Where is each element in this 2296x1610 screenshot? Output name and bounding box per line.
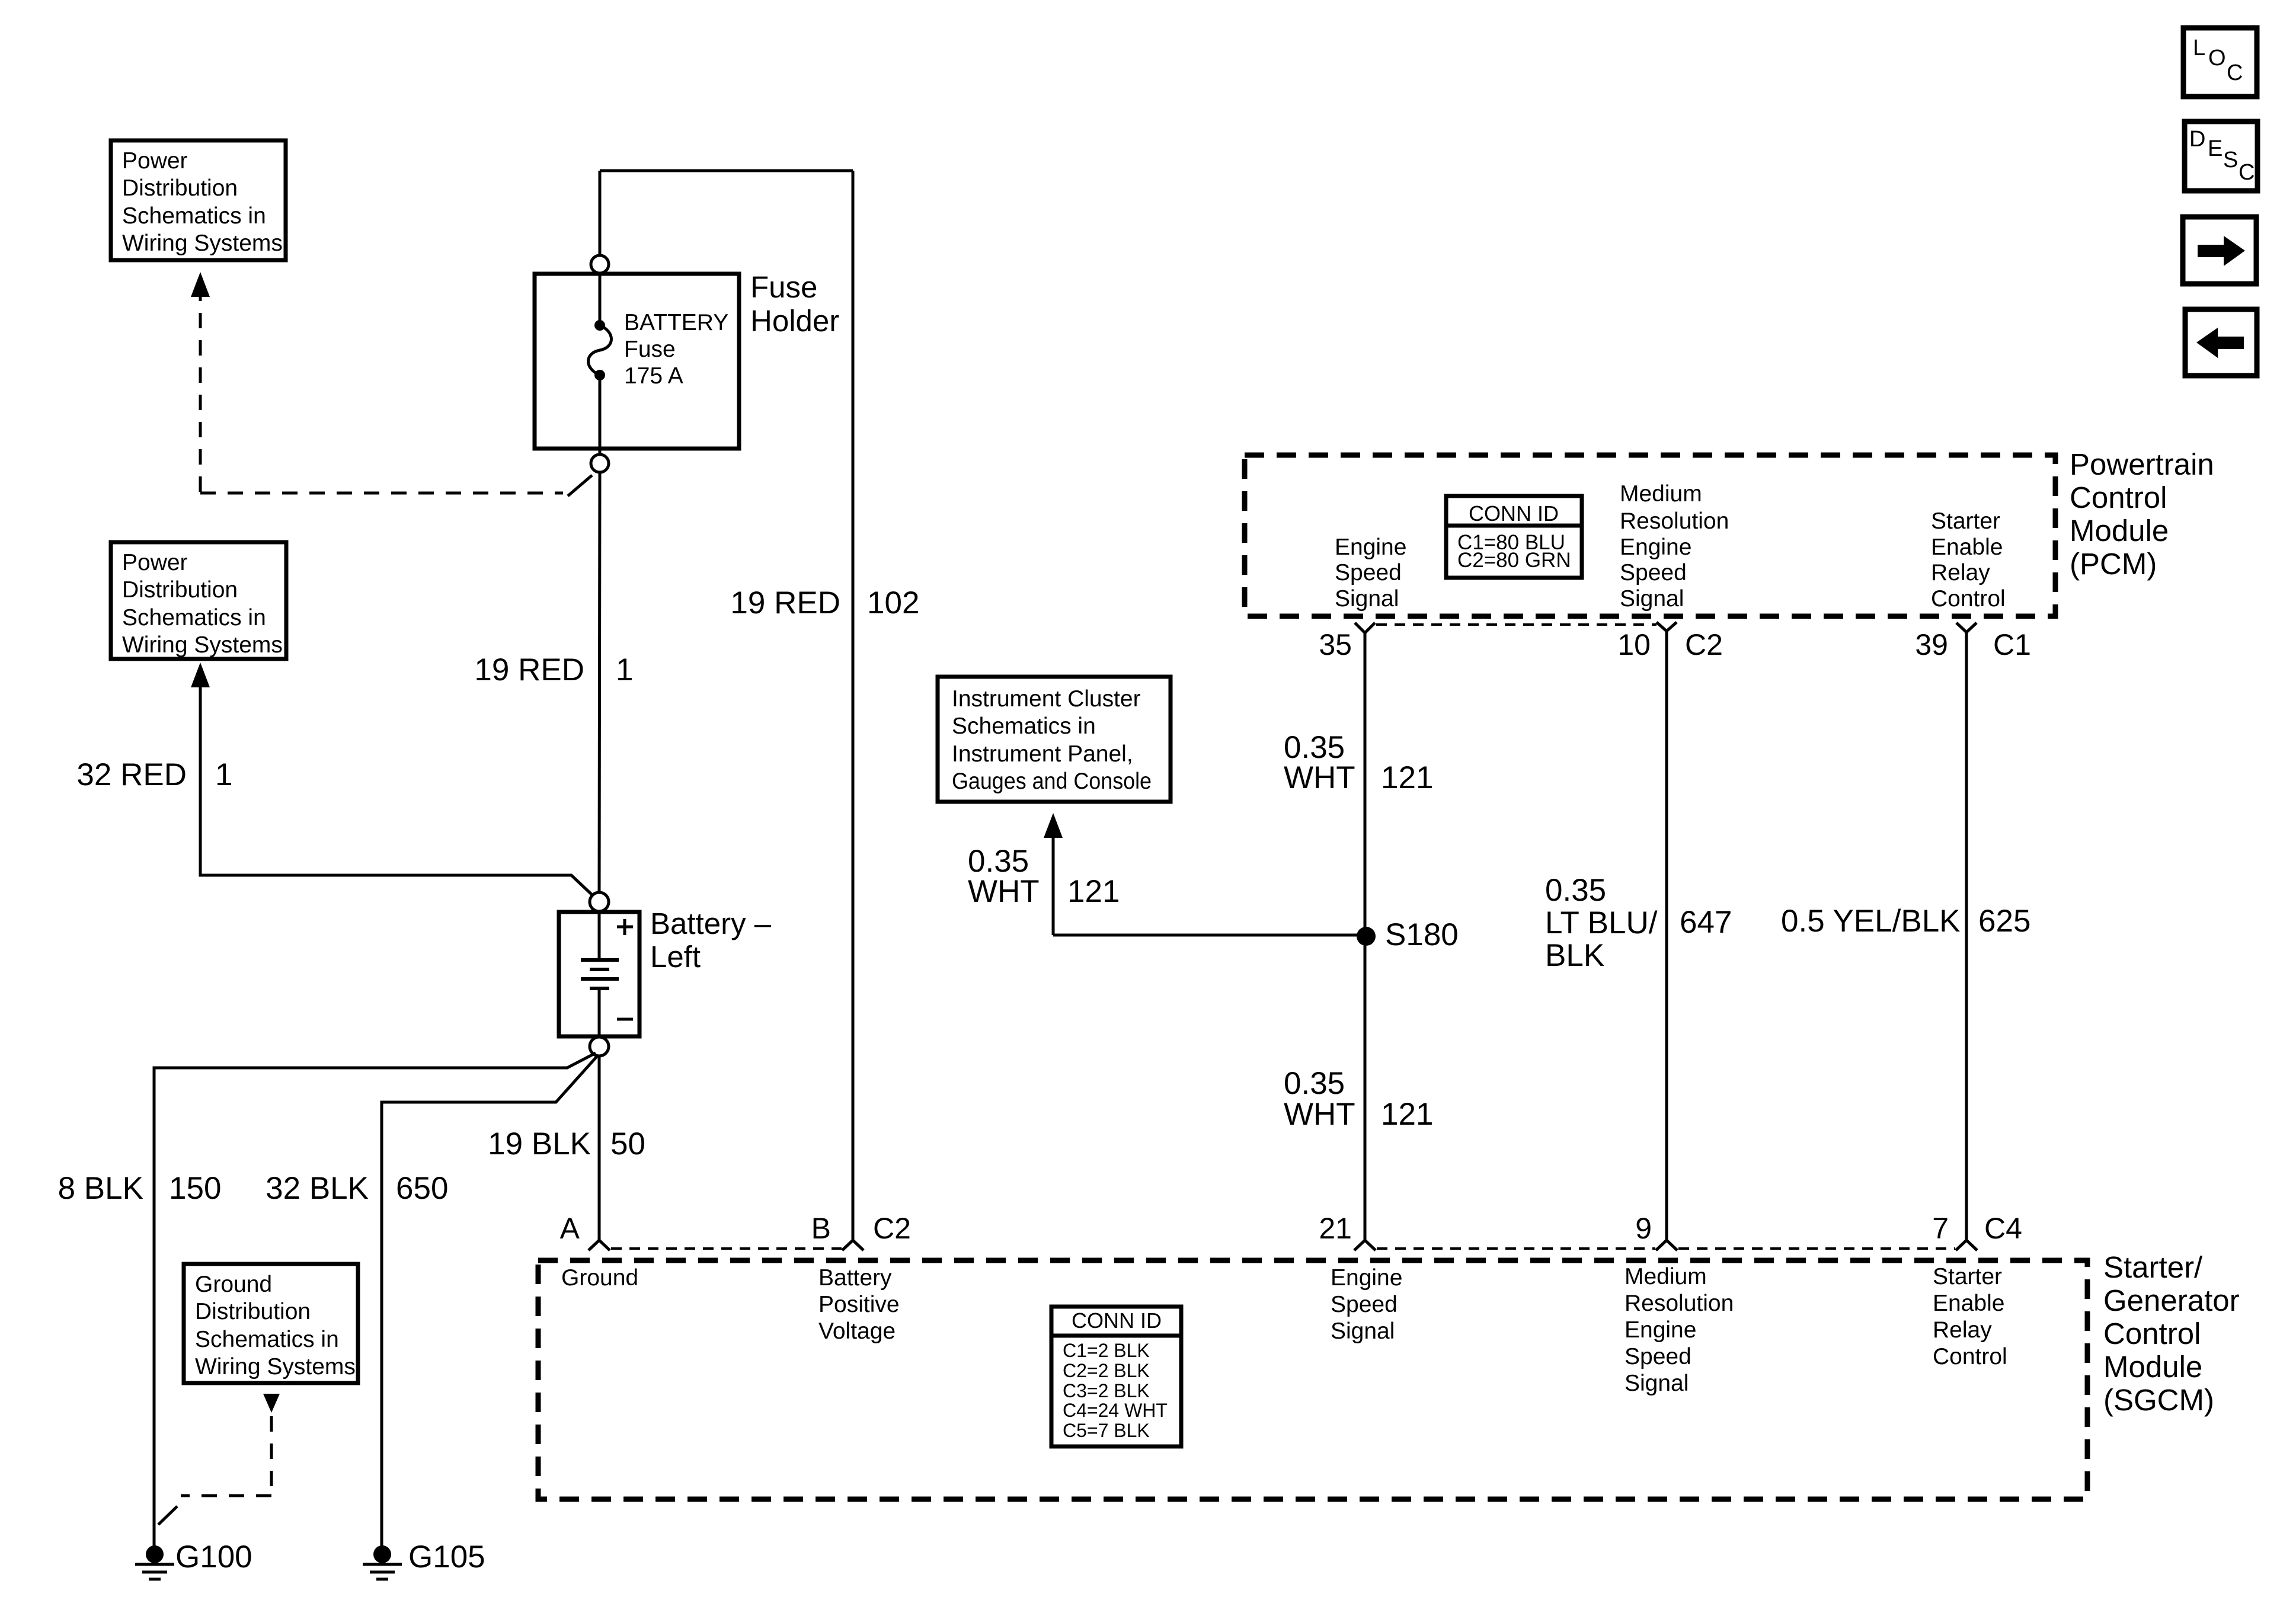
svg-text:625: 625 (1978, 904, 2030, 939)
svg-text:Medium: Medium (1625, 1264, 1707, 1289)
svg-text:Signal: Signal (1335, 586, 1399, 612)
svg-text:Engine: Engine (1625, 1317, 1696, 1343)
svg-text:B: B (811, 1212, 831, 1245)
connector fork B (842, 1240, 864, 1250)
node fuse top terminal (591, 255, 609, 273)
svg-text:WHT: WHT (1284, 760, 1355, 795)
svg-text:Module: Module (2103, 1350, 2202, 1384)
node fuse bottom terminal (591, 454, 609, 472)
svg-text:C2=2 BLK: C2=2 BLK (1063, 1360, 1150, 1381)
svg-text:Engine: Engine (1335, 534, 1406, 560)
conn line SGCM 9-7 (1678, 1247, 1955, 1250)
svg-text:102: 102 (867, 585, 919, 620)
svg-text:Instrument Cluster: Instrument Cluster (952, 686, 1141, 712)
svg-text:BATTERY: BATTERY (624, 310, 728, 335)
svg-text:1: 1 (215, 757, 232, 792)
svg-text:650: 650 (396, 1171, 448, 1206)
box power distribution (top) (111, 140, 286, 260)
loc box (2183, 28, 2257, 97)
svg-text:(SGCM): (SGCM) (2103, 1383, 2214, 1417)
svg-text:G105: G105 (408, 1539, 485, 1574)
wire 32 BLK 650 branch (382, 1057, 597, 1546)
connector fork 10 (1657, 622, 1677, 631)
svg-text:150: 150 (169, 1171, 221, 1206)
svg-text:175 A: 175 A (624, 363, 683, 389)
svg-text:G100: G100 (175, 1539, 252, 1574)
svg-text:Relay: Relay (1933, 1317, 1992, 1343)
svg-text:0.35: 0.35 (1284, 1066, 1345, 1101)
wire battery internal top (598, 913, 601, 958)
svg-text:Left: Left (650, 940, 701, 974)
svg-text:Schematics in: Schematics in (122, 203, 266, 229)
svg-text:A: A (560, 1212, 580, 1245)
svg-text:Control: Control (1933, 1344, 2007, 1369)
dashed module boxes (538, 455, 2087, 1499)
svg-text:19 BLK: 19 BLK (488, 1126, 591, 1161)
svg-text:9: 9 (1635, 1212, 1652, 1245)
svg-text:Signal: Signal (1331, 1318, 1395, 1344)
svg-text:1: 1 (616, 652, 633, 687)
svg-text:S: S (2223, 148, 2238, 172)
svg-text:L: L (2193, 36, 2205, 60)
connector fork A (589, 1240, 610, 1250)
conn id table SGCM (1051, 1307, 1181, 1446)
box ground distribution (184, 1264, 358, 1383)
svg-text:Speed: Speed (1620, 560, 1687, 585)
wire battery internal bottom (598, 988, 601, 1035)
svg-text:C4=24 WHT: C4=24 WHT (1063, 1400, 1168, 1421)
svg-text:C3=2 BLK: C3=2 BLK (1063, 1380, 1150, 1401)
wire 121 / S180 vertical (1364, 633, 1367, 1240)
svg-text:32 RED: 32 RED (76, 757, 187, 792)
battery plate short (590, 968, 609, 971)
dashed reference line ground distribution (270, 1416, 273, 1493)
battery minus sign (617, 1018, 633, 1021)
svg-text:Ground: Ground (561, 1265, 638, 1291)
box power distribution (middle) (111, 542, 286, 659)
dashed reference line to power distribution box (top) (199, 296, 202, 492)
conn id table PCM (1446, 496, 1582, 578)
svg-text:39: 39 (1915, 628, 1948, 661)
svg-text:C1: C1 (1993, 628, 2031, 661)
wire 19 RED 1 (599, 472, 600, 893)
arrowhead ground distribution (down) (263, 1394, 280, 1413)
svg-text:Module: Module (2070, 514, 2169, 548)
svg-text:CONN ID: CONN ID (1072, 1308, 1162, 1333)
conn line PCM 35-10 (1376, 623, 1657, 626)
svg-text:Holder: Holder (750, 304, 839, 338)
box instrument cluster (938, 677, 1171, 802)
conn line SGCM A-B (611, 1247, 842, 1250)
svg-text:D: D (2189, 127, 2205, 152)
svg-text:C: C (2239, 160, 2255, 185)
svg-text:19 RED: 19 RED (730, 585, 840, 620)
svg-text:Fuse: Fuse (624, 337, 676, 362)
svg-text:Gauges and Console: Gauges and Console (952, 769, 1152, 794)
prev arrow icon (2196, 328, 2244, 358)
svg-text:Starter/: Starter/ (2103, 1250, 2203, 1284)
svg-text:C: C (2227, 60, 2243, 85)
svg-text:8 BLK: 8 BLK (58, 1171, 143, 1206)
arrowhead 32 RED (191, 662, 210, 687)
svg-text:Ground: Ground (195, 1272, 272, 1297)
svg-text:Engine: Engine (1331, 1265, 1402, 1291)
svg-text:Wiring Systems: Wiring Systems (122, 632, 283, 658)
desc box (2185, 121, 2257, 191)
wire 32 RED 1 with arrow to power distribution box (200, 686, 593, 895)
wire 625 vertical (1965, 632, 1968, 1240)
svg-text:10: 10 (1617, 628, 1651, 661)
svg-text:Signal: Signal (1620, 586, 1684, 612)
module box SGCM (538, 1260, 2087, 1499)
svg-text:Control: Control (2070, 481, 2167, 514)
module box PCM (1245, 455, 2055, 616)
fuse element BATTERY Fuse 175A (594, 320, 605, 331)
svg-text:(PCM): (PCM) (2070, 547, 2157, 581)
svg-text:Powertrain: Powertrain (2070, 447, 2214, 481)
svg-text:S180: S180 (1385, 917, 1459, 952)
svg-text:Battery: Battery (818, 1265, 892, 1291)
battery plus sign (617, 926, 633, 929)
conn line SGCM 21-9 (1377, 1247, 1655, 1250)
svg-text:Medium: Medium (1620, 481, 1702, 507)
svg-text:Enable: Enable (1933, 1291, 2004, 1316)
wire 19 RED 102 vertical (852, 171, 855, 1240)
svg-text:50: 50 (610, 1126, 645, 1161)
svg-text:C1=2 BLK: C1=2 BLK (1063, 1340, 1150, 1361)
svg-text:Resolution: Resolution (1625, 1291, 1734, 1316)
svg-text:Distribution: Distribution (122, 175, 238, 201)
svg-text:Enable: Enable (1931, 534, 2003, 560)
svg-text:Schematics in: Schematics in (952, 713, 1096, 739)
wire 8 BLK 150 branch (154, 1053, 596, 1546)
svg-text:Power: Power (122, 148, 188, 174)
svg-text:Speed: Speed (1331, 1292, 1398, 1317)
svg-text:21: 21 (1319, 1212, 1352, 1245)
svg-text:Wiring Systems: Wiring Systems (122, 231, 283, 256)
svg-text:Power: Power (122, 550, 188, 575)
svg-text:Resolution: Resolution (1620, 508, 1729, 534)
svg-text:WHT: WHT (968, 874, 1040, 909)
solid boxes (111, 140, 1582, 1446)
svg-text:121: 121 (1067, 874, 1120, 909)
wire 19 BLK 50 (598, 1055, 601, 1240)
connector fork 21 (1354, 1240, 1376, 1250)
node S180 junction (1357, 927, 1376, 946)
arrowhead to instrument cluster box (1044, 813, 1063, 838)
ground G100 (146, 1545, 164, 1563)
svg-text:Speed: Speed (1335, 560, 1402, 585)
svg-text:CONN ID: CONN ID (1469, 501, 1559, 526)
wire top horizontal (600, 169, 853, 172)
connector fork 9 (1656, 1240, 1677, 1250)
wire into fuse (599, 273, 602, 323)
prev arrow box (2185, 309, 2257, 376)
svg-text:LT BLU/: LT BLU/ (1545, 905, 1658, 940)
wire fuse feed (599, 171, 602, 256)
svg-text:BLK: BLK (1545, 938, 1604, 973)
svg-text:Fuse: Fuse (750, 270, 817, 304)
dashed diagonal to fuse terminal (568, 475, 592, 496)
svg-text:Distribution: Distribution (195, 1299, 311, 1324)
svg-text:Relay: Relay (1931, 560, 1990, 585)
svg-text:Starter: Starter (1931, 508, 2000, 534)
wire out of fuse (599, 375, 602, 455)
thin dashed connector-group lines (611, 625, 1955, 1249)
svg-text:Positive: Positive (818, 1292, 900, 1317)
svg-text:Control: Control (1931, 586, 2006, 612)
svg-text:121: 121 (1381, 760, 1433, 795)
svg-text:Engine: Engine (1620, 534, 1691, 560)
svg-text:C2=80 GRN: C2=80 GRN (1457, 549, 1571, 572)
next arrow icon (2196, 236, 2245, 358)
connector fork 7 (1956, 1240, 1977, 1250)
svg-text:O: O (2208, 46, 2226, 71)
svg-text:Schematics in: Schematics in (122, 605, 266, 630)
svg-text:Battery –: Battery – (650, 907, 772, 940)
svg-text:0.35: 0.35 (1545, 873, 1606, 908)
wire 647 vertical (1665, 631, 1668, 1240)
svg-text:Voltage: Voltage (818, 1318, 896, 1344)
svg-text:0.5 YEL/BLK: 0.5 YEL/BLK (1781, 904, 1961, 939)
ground G105 (373, 1545, 391, 1563)
svg-text:Signal: Signal (1625, 1371, 1689, 1396)
connector fork 35 (1355, 623, 1375, 633)
svg-text:Speed: Speed (1625, 1344, 1691, 1369)
svg-text:Control: Control (2103, 1317, 2201, 1350)
legend boxes top right (2183, 28, 2257, 376)
next arrow box (2183, 217, 2256, 284)
svg-text:Generator: Generator (2103, 1283, 2240, 1317)
svg-text:C4: C4 (1984, 1212, 2022, 1245)
svg-text:19 RED: 19 RED (474, 652, 584, 687)
svg-text:Starter: Starter (1933, 1264, 2002, 1289)
arrowhead dashed reference (191, 272, 210, 297)
svg-text:7: 7 (1932, 1212, 1949, 1245)
svg-text:Instrument Panel,: Instrument Panel, (952, 741, 1133, 767)
battery plate long bottom (581, 977, 619, 981)
svg-text:32 BLK: 32 BLK (266, 1171, 369, 1206)
svg-text:121: 121 (1381, 1097, 1433, 1132)
svg-text:C2: C2 (1685, 628, 1723, 661)
node battery positive terminal (590, 892, 609, 911)
svg-text:647: 647 (1680, 905, 1732, 940)
svg-text:WHT: WHT (1284, 1097, 1355, 1132)
node battery negative terminal (590, 1037, 609, 1056)
battery plate long top (581, 958, 619, 962)
svg-text:C5=7 BLK: C5=7 BLK (1063, 1420, 1150, 1441)
connector fork 39 (1956, 623, 1977, 632)
fuse holder box (535, 274, 739, 449)
svg-text:E: E (2208, 136, 2223, 161)
svg-text:Schematics in: Schematics in (195, 1327, 339, 1352)
battery box (559, 912, 639, 1036)
svg-text:35: 35 (1319, 628, 1352, 661)
svg-text:Wiring Systems: Wiring Systems (195, 1354, 356, 1379)
svg-text:Distribution: Distribution (122, 577, 238, 603)
battery plate short bottom (590, 987, 609, 990)
wire 121 branch to instrument cluster (1053, 934, 1365, 937)
svg-text:C2: C2 (873, 1212, 911, 1245)
